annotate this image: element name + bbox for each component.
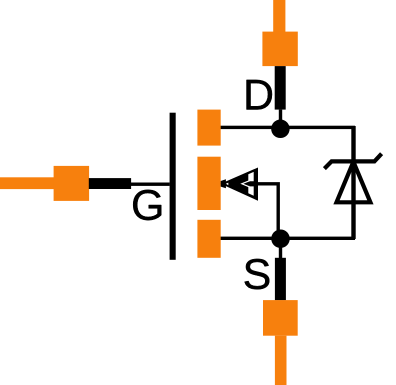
pin G black bar	[89, 178, 131, 189]
node D junction dot	[271, 120, 290, 139]
pin D orange pad	[262, 32, 297, 67]
transistor Q1 body arrow	[221, 168, 258, 201]
node S junction dot	[271, 229, 290, 248]
pin G orange stub wire	[0, 177, 54, 189]
transistor Q1 source channel segment	[197, 220, 220, 258]
transistor Q1 body channel segment	[197, 157, 220, 210]
wire drain horizontal	[220, 126, 355, 129]
transistor Q1 drain channel segment	[197, 110, 220, 146]
pin D orange stub wire	[273, 0, 285, 32]
wire from body arrow to source node	[250, 184, 279, 239]
wire source horizontal	[220, 237, 355, 240]
pin S black bar	[275, 258, 286, 300]
zener D1 cathode bar	[324, 154, 381, 169]
pin S orange stub wire	[275, 336, 287, 385]
zener D1 anode triangle	[337, 162, 371, 203]
pin D thin lead	[279, 110, 282, 129]
label S	[245, 259, 270, 289]
transistor Q1 gate line	[170, 113, 176, 260]
pin G orange pad	[54, 166, 90, 201]
pin G thin lead	[130, 183, 170, 186]
wire right vertical (zener branch)	[351, 126, 355, 239]
label G	[133, 190, 161, 220]
pin D black bar	[275, 66, 286, 110]
pin S orange pad	[263, 300, 298, 336]
label D	[247, 80, 272, 110]
pin S thin lead	[279, 239, 282, 259]
